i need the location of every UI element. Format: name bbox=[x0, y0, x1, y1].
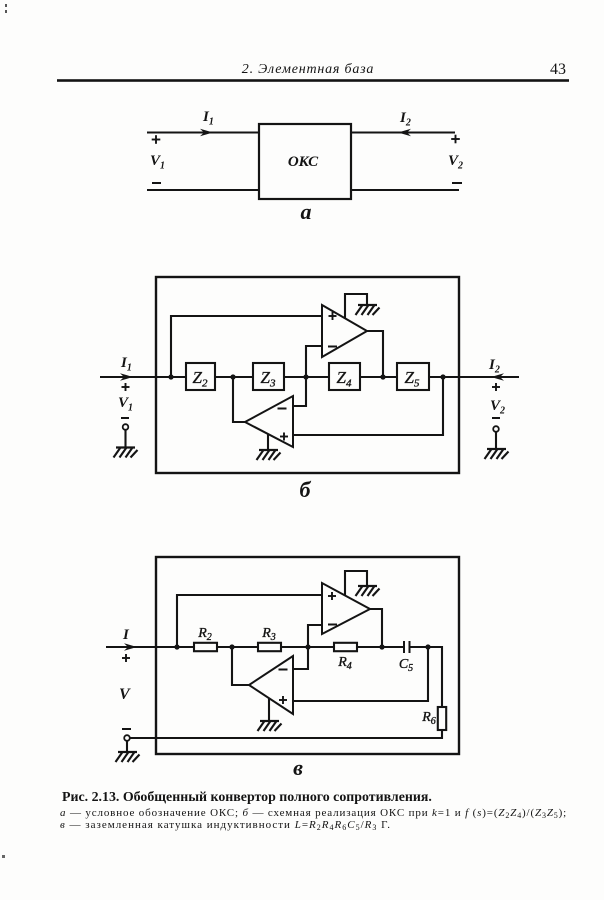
svg-text:Z3: Z3 bbox=[261, 368, 276, 390]
wire U1 output to node D bbox=[367, 331, 383, 377]
two-port box OKC bbox=[259, 124, 351, 199]
wire R6 to bottom rail bbox=[130, 730, 442, 738]
wire arrow I2 into circuit bbox=[491, 373, 504, 381]
svg-text:б: б bbox=[300, 477, 312, 502]
wire main line left segment bbox=[100, 376, 186, 378]
impedance Z3 bbox=[253, 363, 284, 390]
wire bottom-right of OKC box bbox=[351, 189, 459, 191]
enclosure box of fig v bbox=[156, 557, 459, 754]
page speck top-left bbox=[5, 4, 7, 7]
ground of U2 bbox=[258, 721, 282, 731]
wire node C to U1 minus input bbox=[308, 625, 322, 647]
capacitor C5 bbox=[404, 641, 410, 653]
wire U2 to ground bbox=[268, 698, 270, 721]
terminal V1: circle bbox=[123, 424, 129, 430]
label minus fig v bbox=[122, 728, 131, 730]
wire U2 to ground bbox=[267, 434, 269, 450]
node A junction dot bbox=[174, 644, 179, 649]
wire U2 output to node B bbox=[232, 647, 249, 685]
label U1 plus bbox=[329, 312, 337, 320]
terminal V bottom: circle bbox=[124, 735, 130, 741]
label plus fig v bbox=[122, 654, 130, 662]
resistor R3 bbox=[258, 643, 281, 651]
op-amp U1 triangle bbox=[322, 305, 367, 357]
op-amp U2 triangle (points left) bbox=[245, 396, 293, 447]
svg-text:V2: V2 bbox=[490, 398, 505, 417]
node D junction dot bbox=[379, 644, 384, 649]
enclosure box of fig b bbox=[156, 277, 459, 473]
page speck bottom-left bbox=[2, 855, 5, 858]
label minus V1 fig b bbox=[121, 417, 129, 419]
label minus V2 fig b bbox=[492, 417, 500, 419]
svg-text:V2: V2 bbox=[448, 153, 463, 172]
node E junction dot bbox=[425, 644, 430, 649]
terminal V2: circle bbox=[493, 426, 499, 432]
wire Z3 to Z4 bbox=[284, 376, 329, 378]
resistor R4 bbox=[334, 643, 357, 651]
wire C5 to node E bbox=[410, 646, 443, 648]
svg-text:а: а bbox=[301, 199, 312, 224]
svg-text:ОКС: ОКС bbox=[288, 154, 319, 170]
ground of U1 bbox=[356, 305, 380, 315]
wire R4 to C5 bbox=[357, 646, 404, 648]
node E junction dot bbox=[440, 374, 445, 379]
svg-text:I1: I1 bbox=[202, 109, 214, 128]
wire node E to U2 plus input bbox=[293, 377, 443, 435]
header rule bbox=[57, 79, 569, 82]
svg-text:I: I bbox=[122, 627, 130, 643]
node B junction dot bbox=[230, 374, 235, 379]
label minus right bbox=[452, 182, 462, 184]
wire Z4 to Z5 bbox=[360, 376, 397, 378]
impedance Z2 bbox=[186, 363, 215, 390]
wire node C to U2 minus input bbox=[293, 377, 306, 406]
wire arrow I1 bbox=[200, 129, 213, 137]
svg-text:V1: V1 bbox=[118, 395, 133, 414]
wire Z2 to Z3 bbox=[215, 376, 253, 378]
wire node C to U2 minus input bbox=[293, 647, 308, 669]
wire U2 output to node B bbox=[233, 377, 245, 422]
svg-text:Z4: Z4 bbox=[337, 368, 352, 390]
wire node A to U1 plus input bbox=[177, 595, 322, 647]
svg-text:R2: R2 bbox=[197, 626, 212, 643]
resistor R2 bbox=[194, 643, 217, 651]
svg-text:R6: R6 bbox=[421, 710, 436, 727]
ground of U2 bbox=[257, 450, 281, 460]
svg-text:Рис. 2.13. Обобщенный конверто: Рис. 2.13. Обобщенный конвертор полного … bbox=[62, 790, 432, 805]
wire V2 terminal to ground bbox=[495, 432, 497, 449]
wire arrow I into circuit bbox=[124, 643, 137, 651]
node C junction dot bbox=[305, 644, 310, 649]
label U2 minus bbox=[278, 408, 287, 410]
op-amp U1 triangle bbox=[322, 583, 370, 634]
label U2 plus bbox=[280, 433, 288, 441]
wire main line right segment bbox=[429, 376, 519, 378]
ground at V2 terminal bbox=[485, 449, 509, 459]
node B junction dot bbox=[229, 644, 234, 649]
svg-text:в — заземленная катушка индукт: в — заземленная катушка индуктивности L=… bbox=[60, 819, 391, 832]
label minus left bbox=[152, 182, 161, 184]
label U2 minus fig v bbox=[279, 669, 288, 671]
node C junction dot bbox=[303, 374, 308, 379]
wire top-right of OKC box bbox=[351, 131, 455, 133]
label U1 minus bbox=[328, 346, 337, 348]
label plus V2 fig b bbox=[492, 383, 500, 391]
wire R3 to R4 bbox=[281, 646, 334, 648]
wire V1 terminal to ground bbox=[124, 430, 126, 448]
node D junction dot bbox=[380, 374, 385, 379]
svg-text:R4: R4 bbox=[337, 655, 352, 672]
svg-text:R3: R3 bbox=[261, 626, 276, 643]
label plus right bbox=[451, 135, 460, 144]
label U1 plus fig v bbox=[328, 592, 336, 600]
svg-text:Z5: Z5 bbox=[405, 368, 420, 390]
ground at V terminal bbox=[116, 752, 140, 762]
label plus V1 fig b bbox=[122, 383, 130, 391]
wire arrow I1 into circuit bbox=[120, 373, 133, 381]
wire U1 to ground bbox=[345, 294, 367, 318]
resistor R6 (vertical) bbox=[438, 707, 446, 730]
svg-text:43: 43 bbox=[550, 61, 566, 78]
wire U1 to ground bbox=[345, 571, 367, 596]
svg-text:I1: I1 bbox=[120, 355, 132, 374]
svg-text:I2: I2 bbox=[399, 110, 411, 129]
wire arrow I2 bbox=[398, 129, 411, 137]
ground at V1 terminal bbox=[114, 448, 138, 458]
wire R2 to R3 bbox=[217, 646, 258, 648]
impedance Z4 bbox=[329, 363, 360, 390]
wire node E to R6 branch bbox=[428, 647, 442, 707]
wire node C to U1 minus input bbox=[306, 346, 322, 377]
svg-text:2. Элементная база: 2. Элементная база bbox=[242, 62, 374, 77]
svg-text:Z2: Z2 bbox=[193, 368, 208, 390]
wire terminal to ground bbox=[126, 741, 128, 752]
wire top-left of OKC box bbox=[147, 131, 259, 133]
svg-text:в: в bbox=[293, 755, 303, 780]
wire bottom-left of OKC box bbox=[147, 189, 259, 191]
svg-text:I2: I2 bbox=[488, 357, 500, 376]
svg-text:C5: C5 bbox=[399, 657, 413, 674]
label U1 minus fig v bbox=[328, 624, 337, 626]
label plus left bbox=[152, 135, 161, 144]
label U2 plus fig v bbox=[279, 696, 287, 704]
wire U1 output to node D bbox=[370, 609, 382, 647]
wire node E to U2 plus input bbox=[293, 647, 428, 701]
ground of U1 bbox=[356, 586, 380, 596]
svg-text:V: V bbox=[119, 686, 131, 703]
op-amp U2 triangle (points left) bbox=[249, 656, 293, 714]
wire main line entry bbox=[106, 646, 194, 648]
wire node A to U1 plus input bbox=[171, 316, 322, 377]
impedance Z5 bbox=[397, 363, 429, 390]
node A junction dot bbox=[168, 374, 173, 379]
svg-text:V1: V1 bbox=[150, 153, 165, 172]
